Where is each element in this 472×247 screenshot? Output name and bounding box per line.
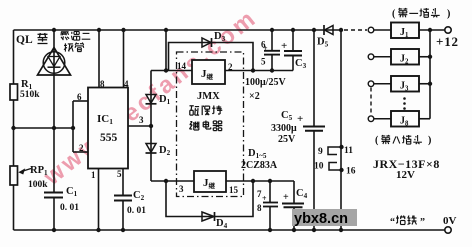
sensor inner diode — [48, 57, 60, 67]
node dots top rail — [52, 28, 56, 32]
wire supply drop to relay — [165, 30, 167, 71]
capacitor C2 — [114, 195, 132, 197]
svg-text:15: 15 — [229, 185, 239, 195]
wire D3 bypass loop — [169, 43, 254, 71]
svg-text:+: + — [281, 40, 287, 52]
wire sensor branch lower below C1 — [53, 198, 55, 231]
wire C4 branch — [293, 181, 295, 230]
svg-text:): ) — [428, 135, 431, 146]
wire junction row to pins 2/6 — [14, 127, 74, 129]
svg-text:QL: QL — [16, 34, 33, 46]
diode D3 — [202, 38, 211, 47]
node dot pin3-D1-D2 — [149, 124, 153, 128]
diode D5 — [325, 26, 334, 35]
wire pin3 output — [128, 125, 151, 127]
sensor diode triangle — [38, 48, 71, 76]
svg-text:14: 14 — [177, 61, 187, 71]
wire cap 7-8 upper — [269, 181, 271, 202]
capacitor C4 plates — [282, 203, 304, 205]
plug contact J1 circle — [368, 27, 374, 33]
sensor diode circle — [43, 52, 65, 74]
svg-text:0V: 0V — [443, 215, 457, 227]
wire 100u cap#1 upper — [271, 30, 273, 50]
svg-text:+: + — [263, 44, 268, 53]
wire sensor branch upper — [53, 30, 55, 193]
svg-text:2CZ83A: 2CZ83A — [241, 160, 278, 171]
wire pin14 feed — [151, 70, 192, 72]
svg-text:ybx8.cn: ybx8.cn — [294, 211, 348, 227]
svg-text:3: 3 — [139, 115, 144, 125]
svg-text:10: 10 — [314, 162, 324, 172]
link pins 9-11 — [328, 147, 342, 155]
ellipsis between J3 and J8 — [403, 97, 406, 100]
node dots bottom rail — [52, 228, 56, 232]
svg-text:“: “ — [390, 217, 395, 228]
svg-text:555: 555 — [100, 132, 118, 144]
svg-text:+12: +12 — [436, 34, 459, 49]
svg-text:JMX: JMX — [197, 91, 220, 102]
svg-text:12V: 12V — [396, 169, 415, 181]
label ybx8.cn plate — [292, 209, 357, 226]
svg-text:3: 3 — [179, 184, 184, 194]
wire D4 loop — [166, 181, 253, 217]
wire J1 left stub — [374, 29, 391, 31]
diode D1 — [146, 95, 156, 104]
svg-text:2: 2 — [79, 143, 84, 153]
diode D2 — [146, 144, 156, 153]
svg-text:8: 8 — [257, 203, 262, 213]
potentiometer RP1 wiper arrow — [22, 169, 32, 172]
svg-text:2: 2 — [228, 62, 233, 72]
wire C3 upper — [292, 30, 294, 50]
IC U1 555 timer box — [88, 88, 128, 169]
wire dashed plug commons J3-J8 — [370, 88, 372, 116]
label sensor diode name — [61, 31, 69, 33]
svg-text:): ) — [447, 9, 450, 20]
relay coil 2 box — [194, 171, 226, 192]
relay contact J3 box — [391, 76, 419, 92]
svg-text:×2: ×2 — [249, 91, 260, 102]
wire pins 6-2 tie vertical — [72, 101, 74, 152]
wire pin6 stub — [73, 100, 88, 102]
wire +12 bus vertical — [429, 30, 431, 119]
relay contact J2 box — [391, 49, 419, 65]
capacitor C3 plates — [284, 50, 302, 52]
wire J3 right stub — [419, 83, 430, 85]
node dots relay bottom row — [164, 179, 168, 183]
wire C3 lower — [292, 57, 294, 71]
node dots relay top row — [164, 68, 168, 72]
wire J3 left stub — [374, 83, 391, 85]
wire pin8 to rail — [98, 30, 100, 88]
wire cap 7-8 lower — [269, 207, 271, 231]
svg-text:9: 9 — [318, 147, 323, 157]
wire J1 right to +12 terminal — [419, 29, 445, 31]
svg-text:4: 4 — [124, 79, 129, 89]
wire D1-D2 vertical — [150, 71, 152, 182]
svg-text:3300μ: 3300μ — [271, 123, 297, 134]
label jidianqi — [190, 121, 192, 123]
wire pin2 stub — [73, 151, 88, 153]
wire 100u cap#1 lower — [271, 55, 273, 71]
relay contact J8 box — [391, 111, 419, 127]
svg-text:5: 5 — [261, 57, 266, 67]
wire pin1 to 0V — [98, 169, 100, 231]
wire top supply rail — [14, 29, 342, 31]
svg-text:5: 5 — [117, 169, 122, 179]
svg-text:”: ” — [420, 217, 425, 228]
capacitor 100u #1 plates — [264, 50, 280, 52]
svg-text:1: 1 — [91, 170, 96, 180]
link pins 10-16 — [329, 163, 342, 171]
wire pin5 lower below C2 — [122, 201, 124, 231]
relay contact J1 box — [391, 23, 419, 39]
node dot J1 bus — [428, 28, 432, 32]
wire bottom 0V rail — [14, 229, 445, 231]
capacitor C1 — [44, 192, 63, 194]
svg-text:16: 16 — [346, 167, 356, 177]
svg-text:11: 11 — [344, 146, 353, 156]
terminal 0V circle — [445, 227, 451, 233]
svg-text:100μ/25V: 100μ/25V — [245, 77, 286, 88]
wire J2 right stub — [419, 56, 430, 58]
plug contact J8 circle — [368, 116, 374, 122]
plug contact J3 circle — [368, 81, 374, 87]
svg-text:+: + — [297, 113, 303, 125]
svg-text:0. 01: 0. 01 — [60, 203, 79, 213]
svg-text:510k: 510k — [20, 90, 40, 100]
terminal +12 circle — [445, 27, 451, 33]
wire pin4 to rail — [123, 30, 125, 88]
wire J2 left stub — [374, 56, 391, 58]
svg-text:+: + — [283, 192, 289, 203]
svg-text:25V: 25V — [278, 134, 296, 145]
wire left rail — [13, 30, 15, 230]
diode D4 — [202, 212, 214, 221]
capacitor pins7-8 plates — [263, 202, 278, 204]
wire right distribution drop — [340, 30, 342, 230]
resistor R1 — [10, 84, 18, 100]
wire relay pin15 row — [226, 180, 294, 182]
relay coil 1 box — [192, 60, 225, 84]
wire relay pin2 row — [225, 70, 293, 72]
wire C5 upper — [313, 30, 315, 126]
svg-text:6: 6 — [77, 92, 82, 102]
relay dashed enclosure JMX — [177, 52, 244, 197]
node dots left junction row — [11, 126, 15, 130]
svg-text:100k: 100k — [28, 180, 48, 190]
capacitor C5 plates — [303, 126, 325, 128]
wire dashed link to plug J1 — [344, 29, 367, 31]
svg-text:+: + — [262, 194, 267, 203]
wire J8 right stub — [419, 118, 430, 120]
label cihebaochi — [190, 105, 194, 107]
svg-text:0. 01: 0. 01 — [127, 206, 146, 216]
wire pin5 upper — [122, 169, 124, 196]
potentiometer RP1 — [10, 166, 18, 185]
wire J8 left stub — [374, 118, 391, 120]
wire relay pin3 row — [151, 180, 194, 182]
wire C5 lower — [313, 132, 315, 231]
svg-text:8: 8 — [100, 79, 105, 89]
plug contact J2 circle — [368, 54, 374, 60]
